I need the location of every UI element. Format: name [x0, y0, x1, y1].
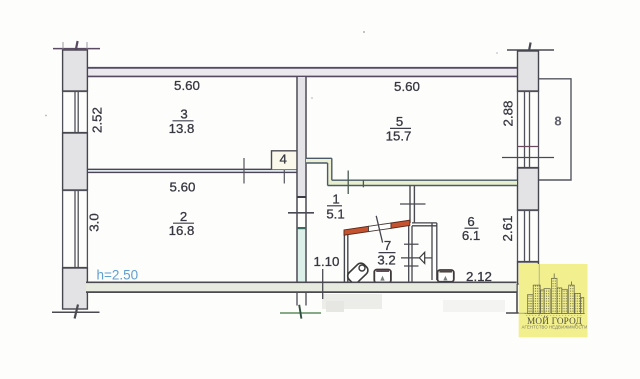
- svg-text:5.60: 5.60: [174, 78, 200, 93]
- wall room6 left upper: [410, 186, 414, 224]
- tick below 1.10: [322, 269, 324, 299]
- tick on right wall: [502, 157, 554, 159]
- svg-text:1.10: 1.10: [314, 254, 340, 269]
- svg-text:7: 7: [384, 238, 391, 253]
- svg-text:2.88: 2.88: [501, 101, 516, 127]
- diagonal door tick: [376, 216, 382, 243]
- svg-text:13.8: 13.8: [169, 121, 195, 136]
- balcony 8: [539, 79, 571, 180]
- break mark top-right: [507, 43, 554, 58]
- svg-text:6.1: 6.1: [462, 228, 480, 243]
- right wall pillar upper: [518, 51, 539, 91]
- step wall corridor: [306, 158, 517, 185]
- svg-text:h=2.50: h=2.50: [97, 268, 139, 283]
- svg-text:1: 1: [332, 192, 339, 207]
- wall between rooms 3 and 2: [88, 169, 297, 172]
- narrow toilet room: [409, 223, 437, 282]
- left wall window 2.52: [63, 91, 88, 133]
- left wall pillar middle: [63, 133, 88, 190]
- svg-text:6: 6: [467, 214, 474, 229]
- bottom wall: [86, 282, 517, 292]
- svg-text:5.60: 5.60: [394, 79, 420, 94]
- left wall window 3.0: [63, 190, 88, 268]
- svg-text:2.61: 2.61: [500, 216, 515, 242]
- svg-text:2.52: 2.52: [90, 107, 105, 133]
- top wall: [87, 68, 517, 77]
- specks: [363, 31, 365, 33]
- right wall pillar lower: [518, 262, 539, 284]
- room 3 label: [169, 107, 195, 137]
- svg-text:5.1: 5.1: [326, 207, 344, 222]
- door tick b: [283, 158, 285, 184]
- room 1 label: [326, 192, 344, 222]
- svg-text:2: 2: [180, 209, 187, 224]
- watermark patch: [322, 294, 505, 312]
- door tick a: [243, 158, 245, 184]
- svg-text:5: 5: [396, 114, 403, 129]
- door ticks narrow room: [401, 244, 432, 266]
- right wall window 2.61: [518, 210, 539, 262]
- toilet T1: [374, 270, 391, 283]
- break mark bottom-left: [52, 305, 100, 319]
- closet 4: [272, 151, 297, 170]
- right wall pillar mid: [518, 168, 539, 210]
- break bottom-middle: [280, 312, 321, 314]
- room 6 label: [462, 214, 480, 243]
- svg-text:8: 8: [554, 114, 561, 129]
- bathroom left wall: [344, 232, 347, 284]
- washbasin: [346, 261, 370, 285]
- break mark bottom-right: [506, 312, 540, 314]
- svg-text:5.60: 5.60: [170, 180, 196, 195]
- svg-text:3.2: 3.2: [377, 253, 395, 268]
- left wall pillar lower: [63, 268, 88, 309]
- door arrow: [419, 252, 424, 263]
- break mark top-left: [53, 41, 100, 56]
- svg-text:15.7: 15.7: [386, 129, 412, 144]
- svg-text:3.0: 3.0: [87, 213, 102, 232]
- room 2 label: [169, 209, 195, 238]
- svg-text:16.8: 16.8: [169, 223, 195, 238]
- svg-text:4: 4: [280, 152, 287, 167]
- room 5 label: [386, 114, 412, 144]
- tick door room6: [400, 203, 426, 205]
- svg-text:АГЕНТСТВО НЕДВИЖИМОСТИ: АГЕНТСТВО НЕДВИЖИМОСТИ: [522, 325, 588, 330]
- right wall below bottom wall: [516, 284, 518, 313]
- svg-text:3: 3: [180, 107, 187, 122]
- room 7 label: [377, 238, 395, 268]
- logo box: [519, 264, 588, 337]
- sloped wall with red segments: [344, 220, 410, 235]
- middle wall below bottom: [297, 293, 306, 306]
- middle wall: [288, 77, 314, 293]
- toilet T2: [438, 270, 454, 282]
- small tick: [362, 180, 364, 188]
- left wall pillar upper: [63, 50, 88, 91]
- svg-text:2.12: 2.12: [466, 269, 492, 284]
- door tick room 5: [347, 171, 349, 195]
- right wall window 2.88: [518, 91, 539, 168]
